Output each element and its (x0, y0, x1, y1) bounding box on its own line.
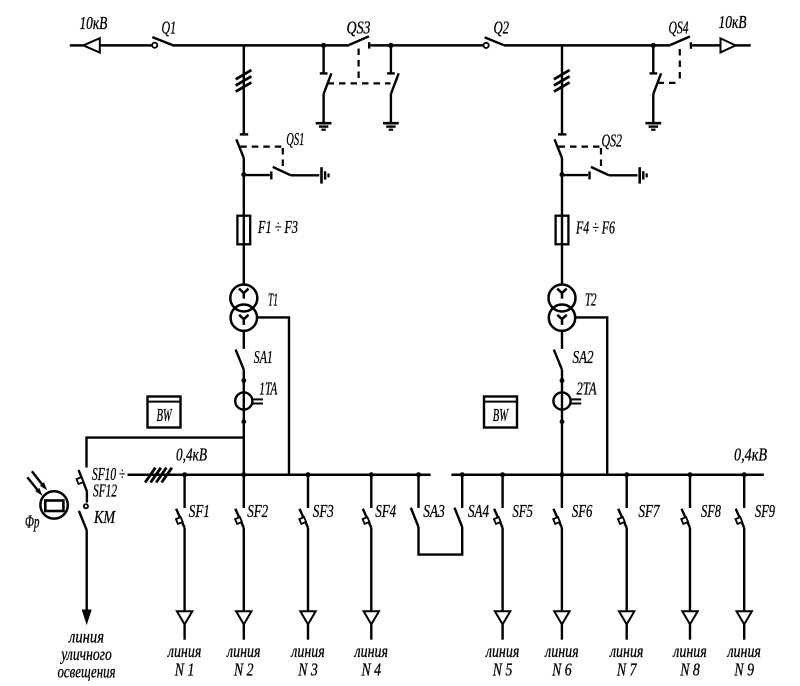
svg-text:N 5: N 5 (492, 660, 512, 680)
svg-text:линия: линия (485, 641, 519, 661)
svg-text:BW: BW (493, 405, 509, 425)
svg-text:линия: линия (290, 641, 324, 661)
svg-text:QS4: QS4 (669, 18, 689, 38)
svg-text:F4 ÷ F6: F4 ÷ F6 (575, 218, 615, 238)
svg-text:линия: линия (167, 641, 201, 661)
svg-text:N 4: N 4 (361, 660, 381, 680)
svg-text:SA4: SA4 (468, 501, 489, 521)
svg-text:Q1: Q1 (162, 18, 177, 38)
svg-text:SF2: SF2 (247, 501, 268, 521)
svg-text:линия: линия (609, 641, 643, 661)
svg-text:SA2: SA2 (573, 347, 594, 367)
svg-text:N 2: N 2 (233, 660, 253, 680)
svg-text:SA3: SA3 (423, 501, 445, 521)
svg-text:SF3: SF3 (313, 501, 334, 521)
svg-text:Фр: Фр (25, 512, 40, 532)
svg-text:линия: линия (672, 641, 706, 661)
svg-text:SF1: SF1 (189, 501, 210, 521)
svg-text:SF8: SF8 (701, 501, 721, 521)
svg-text:0,4кВ: 0,4кВ (734, 445, 767, 465)
svg-text:10кВ: 10кВ (80, 13, 108, 33)
svg-text:линия: линия (226, 641, 260, 661)
svg-text:T2: T2 (585, 290, 597, 310)
svg-text:F1 ÷ F3: F1 ÷ F3 (257, 217, 298, 237)
svg-text:1TA: 1TA (259, 379, 278, 399)
svg-text:Q2: Q2 (494, 18, 510, 38)
svg-text:QS3: QS3 (347, 18, 371, 38)
svg-text:линия: линия (727, 641, 761, 661)
svg-text:освещения: освещения (58, 662, 116, 682)
svg-text:SF7: SF7 (639, 501, 661, 521)
svg-text:линия: линия (544, 641, 578, 661)
svg-text:N 8: N 8 (679, 660, 699, 680)
svg-text:SF5: SF5 (512, 501, 533, 521)
svg-text:T1: T1 (268, 290, 278, 310)
svg-text:2TA: 2TA (577, 379, 598, 399)
svg-text:SF12: SF12 (93, 481, 117, 501)
svg-text:N 7: N 7 (616, 660, 637, 680)
svg-text:SF4: SF4 (375, 501, 396, 521)
svg-text:N 6: N 6 (551, 660, 571, 680)
svg-text:QS1: QS1 (286, 129, 304, 149)
svg-text:линия: линия (354, 641, 388, 661)
svg-text:BW: BW (157, 405, 173, 425)
svg-text:КМ: КМ (93, 507, 116, 527)
svg-text:N 3: N 3 (297, 660, 317, 680)
svg-text:0,4кВ: 0,4кВ (176, 445, 207, 465)
svg-text:10кВ: 10кВ (719, 12, 747, 32)
svg-text:N 9: N 9 (734, 660, 754, 680)
svg-text:SA1: SA1 (254, 347, 273, 367)
svg-text:SF9: SF9 (755, 501, 775, 521)
svg-text:QS2: QS2 (602, 131, 623, 151)
svg-text:N 1: N 1 (174, 660, 194, 680)
svg-text:SF6: SF6 (572, 501, 593, 521)
